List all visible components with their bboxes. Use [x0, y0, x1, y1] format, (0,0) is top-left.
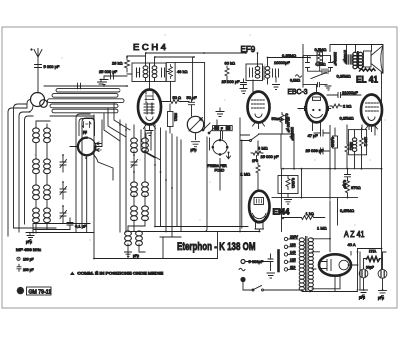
gang capacitor C2 [78, 138, 96, 156]
svg-text:E C H 4: E C H 4 [133, 43, 167, 52]
svg-text:GM 79-11: GM 79-11 [29, 289, 52, 295]
svg-text:40 A: 40 A [348, 242, 356, 247]
svg-text:μFμ: μFμ [359, 296, 365, 300]
svg-text:μFμ: μFμ [191, 148, 197, 152]
choke coil dark [352, 138, 356, 141]
coil L2a [33, 128, 40, 133]
wires left coil column [36, 121, 50, 233]
resistor 0.1M boxed near EM4 [278, 176, 298, 205]
power transformer core [306, 237, 307, 292]
left band coils column [33, 128, 51, 223]
resistor 3M [251, 146, 268, 156]
svg-text:0,25MΩ: 0,25MΩ [282, 53, 296, 58]
tube EL41 internals [366, 103, 379, 132]
output stage box [348, 130, 366, 155]
capacitor on antenna bus [78, 83, 81, 89]
svg-text:0,1 μF: 0,1 μF [75, 224, 87, 229]
svg-text:2 kΩ: 2 kΩ [343, 104, 351, 109]
svg-text:30μF: 30μF [366, 266, 374, 270]
voltage labels [290, 235, 299, 269]
wires IFT2 [253, 53, 310, 92]
svg-text:μFμ: μFμ [133, 254, 139, 258]
ground bottom-left [27, 233, 34, 240]
bottom-left joining wires [14, 224, 95, 234]
svg-text:0,1MΩ: 0,1MΩ [291, 178, 295, 189]
tube AZ41 [319, 254, 351, 275]
capacitor 50pF [187, 95, 198, 116]
coil L3b [44, 159, 51, 164]
coil L9a [125, 231, 132, 236]
speaker SP [364, 46, 384, 74]
resistor 1M EM4 grid [241, 159, 261, 191]
IF transformer T2 [246, 64, 279, 81]
EL41 pin wires [362, 124, 375, 135]
tube EF9 [248, 92, 270, 123]
svg-text:0,25MΩ: 0,25MΩ [340, 116, 354, 121]
coil L5b [44, 208, 51, 213]
resistor 180ohm vertical [360, 136, 368, 148]
svg-text:μFμ: μFμ [378, 296, 384, 300]
svg-text:1P0: 1P0 [252, 159, 258, 163]
tube EM4 internals [253, 198, 267, 230]
wire IF line to switch [204, 63, 206, 129]
coil L6a [131, 138, 138, 143]
svg-text:0,25MΩ: 0,25MΩ [340, 208, 354, 213]
power transformer secondary [308, 238, 313, 291]
antenna A [30, 48, 42, 93]
phono connector box [213, 126, 233, 131]
svg-text:970Ω: 970Ω [351, 185, 361, 190]
resistor 0.1M box vertical [331, 136, 338, 148]
svg-text:220V: 220V [290, 235, 299, 239]
logo [17, 287, 52, 296]
svg-text:43 kΩ: 43 kΩ [177, 69, 188, 74]
resistor 970 vertical [346, 181, 361, 197]
AC squiggle [296, 75, 302, 78]
wires middle coil column [128, 125, 145, 259]
svg-text:EBC-3: EBC-3 [288, 89, 308, 96]
resistor 90k [225, 61, 236, 84]
output transformer T3 [353, 52, 363, 68]
capacitor 5000pF mains [245, 254, 275, 278]
antenna coil L1 [31, 93, 48, 108]
tube ECH4 [138, 90, 161, 125]
legend 200pF [17, 264, 34, 272]
power bottom wires [302, 252, 386, 292]
wires EM4 area [217, 118, 338, 239]
svg-text:μFμ: μFμ [26, 240, 32, 244]
phono socket [212, 131, 231, 159]
coil L9b [136, 231, 143, 236]
capacitor 25000pF AVC [257, 154, 280, 160]
switch diagonal EBC3 [311, 73, 327, 79]
rectifier output wires [335, 249, 382, 292]
oscillator cup above C2 [79, 119, 95, 136]
wires from L1 to left bus [27, 100, 33, 113]
double capacitor bottom [322, 69, 328, 74]
capacitor 25000pF EF9 cathode [222, 79, 248, 94]
capacitor right detector [329, 63, 333, 68]
capacitor 25000pF right [306, 148, 330, 154]
coil L4a [33, 185, 40, 190]
svg-text:EF9: EF9 [241, 45, 256, 54]
coil L7a [131, 182, 138, 187]
long rail y198 [272, 197, 358, 199]
resistor 30k vertical box [168, 104, 178, 133]
wires IFT1 [127, 53, 246, 89]
svg-text:▲ COMM. É IN POSIZIONE ONDE M: ▲ COMM. É IN POSIZIONE ONDE MEDIE [70, 271, 164, 276]
coil L3a [33, 159, 40, 164]
scan speckles [34, 34, 385, 250]
wires around C2 [70, 120, 113, 232]
svg-text:160: 160 [290, 243, 296, 247]
mains shield bar [277, 251, 280, 272]
wires racetrack to coils [104, 103, 130, 141]
coil L8a [131, 206, 138, 211]
svg-text:10000pF: 10000pF [274, 60, 290, 65]
svg-text:ΠΠΛ: ΠΠΛ [369, 250, 377, 254]
resistor 29k [112, 56, 130, 72]
coil L7b [142, 182, 149, 187]
top right rail wires [330, 45, 383, 56]
svg-text:25 000 pF: 25 000 pF [306, 148, 325, 153]
svg-text:110: 110 [290, 265, 296, 269]
resistor 0.5M EBC3 [315, 47, 327, 67]
ground under C3 [192, 133, 200, 147]
switch S1 [240, 135, 259, 142]
svg-text:29 kΩ: 29 kΩ [112, 61, 123, 66]
IF transformer T1 [132, 63, 166, 82]
coil L5a [33, 208, 40, 213]
arrows at C2 [96, 142, 101, 152]
coil L6b [142, 138, 149, 143]
svg-text:21000pF: 21000pF [333, 52, 337, 65]
capacitor 0.5uF between rails [343, 169, 351, 189]
svg-text:0,1MΩ: 0,1MΩ [316, 63, 327, 67]
thick arc C2 [78, 138, 96, 156]
mid vertical wires [94, 115, 181, 259]
racetrack coupling loops [48, 89, 125, 113]
svg-text:25 000 pF: 25 000 pF [261, 154, 280, 159]
coil L2b [44, 128, 51, 133]
capacitor left detector [306, 63, 310, 68]
detector loop EBC3 [308, 52, 331, 71]
coil L8b [142, 206, 149, 211]
electrolytic cap 1 [359, 269, 368, 299]
field coil squiggle [360, 69, 376, 72]
resistor 2k [330, 104, 351, 109]
svg-text:21000pF: 21000pF [342, 90, 358, 95]
wire antenna bus top [44, 85, 127, 87]
wires ECH4 pins down [141, 130, 161, 160]
svg-text:0,1MΩ: 0,1MΩ [290, 79, 301, 83]
right mid connecting wires [330, 125, 362, 169]
svg-text:25 000 pF: 25 000 pF [222, 79, 241, 84]
svg-text:5 000 pF: 5 000 pF [44, 64, 60, 69]
svg-text:47 pF: 47 pF [308, 133, 319, 138]
capacitor 47pF [308, 130, 330, 138]
capacitor 25000pF grid ECH4 [99, 69, 127, 85]
tube EF9 internals [252, 100, 266, 129]
band switch contacts [202, 123, 216, 134]
long rail y169 [283, 168, 382, 170]
svg-text:25 000 pF: 25 000 pF [99, 69, 118, 74]
tube EM4 [249, 191, 269, 223]
svg-text:0,1MΩ: 0,1MΩ [331, 137, 335, 148]
mains terminal 1 [241, 260, 245, 264]
resistor 25k vertical [345, 142, 353, 154]
trimmer cap middle [131, 155, 138, 172]
wire EBC3 to rail [303, 45, 308, 88]
svg-text:100 pF: 100 pF [23, 258, 34, 262]
svg-text:PRESA PER: PRESA PER [208, 164, 228, 168]
ground on antenna bus [98, 79, 105, 86]
svg-text:0,5MΩ: 0,5MΩ [315, 47, 327, 52]
svg-text:F: F [221, 127, 223, 131]
long vertical right of C3 [205, 137, 210, 232]
right B+ rail [381, 73, 383, 269]
svg-text:EL 41: EL 41 [356, 75, 378, 85]
svg-text:1 MΩ: 1 MΩ [317, 226, 327, 231]
tube ECH4 internals [144, 93, 156, 136]
tube AZ41 internals [320, 260, 349, 271]
svg-text:Eterphon - K 138 OM: Eterphon - K 138 OM [177, 241, 256, 253]
surge resistor dark [367, 257, 380, 262]
resistor 50ohm [161, 95, 189, 103]
svg-text:3 MΩ: 3 MΩ [258, 146, 268, 151]
mains terminal 2 [241, 278, 245, 282]
electrolytic cap 2 [378, 269, 387, 299]
svg-text:90 kΩ: 90 kΩ [225, 61, 236, 66]
svg-text:30kΩ: 30kΩ [174, 113, 178, 121]
ground above phono [216, 108, 224, 117]
coil L4b [44, 185, 51, 190]
transformer taps [312, 239, 340, 289]
bottom horizontal wires mid [94, 227, 260, 259]
caps before output transformer [347, 55, 352, 64]
resistor 0.5M vertical [280, 113, 289, 135]
resistor 1k bottom [282, 211, 325, 220]
left mid horizontal [50, 115, 94, 117]
power transformer T4 primary [299, 238, 304, 291]
tube EL41 [361, 95, 382, 126]
capacitor AF coupling EBC3 [303, 82, 331, 90]
trimmer capacitors left column [60, 155, 67, 223]
resistor 43k boxed [166, 63, 187, 82]
AC mains symbol [239, 268, 245, 271]
svg-text:0,5MΩ: 0,5MΩ [285, 114, 289, 125]
svg-text:μμ: μμ [83, 130, 87, 134]
left vertical bus wires [8, 108, 25, 236]
wires selector to primary [293, 239, 298, 269]
wires anode line [171, 58, 205, 102]
capacitor 21000pF coupling [327, 90, 361, 98]
svg-text:125: 125 [290, 258, 296, 262]
voltage selector terminals [284, 237, 292, 271]
power switch S2 [243, 282, 302, 292]
svg-text:200 pF: 200 pF [23, 268, 34, 272]
svg-text:MF 463 kHz: MF 463 kHz [16, 248, 41, 252]
legend 100pF [17, 257, 34, 261]
capacitor 5000pF antenna [35, 64, 60, 69]
svg-text:140: 140 [290, 250, 296, 254]
tube EBC3 [306, 93, 327, 122]
gang capacitor C3 [187, 116, 203, 132]
arrow in C3 [189, 118, 203, 132]
tube EBC3 internals [298, 85, 331, 131]
left section verticals [76, 114, 94, 232]
svg-text:A Z 41: A Z 41 [344, 230, 365, 239]
middle coil column [125, 138, 149, 246]
capacitor 0.1uF bottom left [67, 218, 87, 229]
svg-text:0,25MΩ: 0,25MΩ [337, 74, 351, 79]
